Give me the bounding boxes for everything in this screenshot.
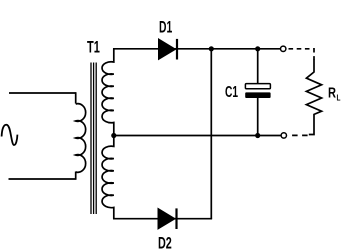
dashed wire: top output to load [289, 49, 315, 60]
transformer core line 2 [93, 63, 95, 215]
transformer core line 3 [95, 63, 97, 215]
transformer secondary upper winding (5 loops, bulge left) [102, 49, 114, 136]
transformer secondary lower winding (5 loops, bulge left) [102, 136, 114, 219]
wire: top rail [113, 48, 280, 50]
diode D1 triangle [159, 39, 176, 60]
svg-text:C1: C1 [225, 84, 238, 101]
terminal circle: top output [281, 46, 286, 51]
wire: primary bottom corner [75, 172, 77, 180]
svg-text:T1: T1 [87, 37, 100, 56]
dashed wire: bottom output to load [292, 134, 308, 136]
svg-text:L: L [337, 93, 341, 103]
wire: bridge vertical (D2 output up to top rail) [210, 49, 212, 219]
junction dot: top rail / C1 [255, 46, 260, 51]
svg-text:R: R [328, 86, 336, 102]
AC source symbol (sine squiggle) [2, 125, 18, 145]
wire: center rail (center tap to output) [114, 135, 281, 137]
capacitor C1 bottom plate (solid) [245, 92, 270, 98]
svg-text:D2: D2 [158, 234, 172, 250]
junction dot: top rail / bridge vertical [209, 46, 214, 51]
resistor RL (vertical zigzag) [306, 60, 321, 135]
wire: C1 bottom lead [257, 98, 259, 136]
diode D1 cathode bar [176, 39, 178, 60]
wire: primary bottom lead [9, 178, 77, 180]
wire: primary top lead [9, 92, 76, 94]
wire: bottom rail [113, 218, 212, 220]
wire: primary top corner down [75, 92, 77, 103]
transformer T1 primary winding (4 loops, bulge right) [76, 104, 86, 173]
wire: C1 top lead [257, 49, 259, 84]
terminal circle: bottom output [281, 133, 286, 138]
svg-text:D1: D1 [159, 17, 172, 36]
junction dot: center rail / C1 [255, 133, 260, 138]
junction dot: center tap [111, 133, 116, 138]
capacitor C1 top plate (hollow) [245, 84, 270, 89]
transformer core line 1 [90, 63, 92, 215]
diode D2 triangle [158, 208, 175, 229]
diode D2 cathode bar [175, 208, 177, 229]
